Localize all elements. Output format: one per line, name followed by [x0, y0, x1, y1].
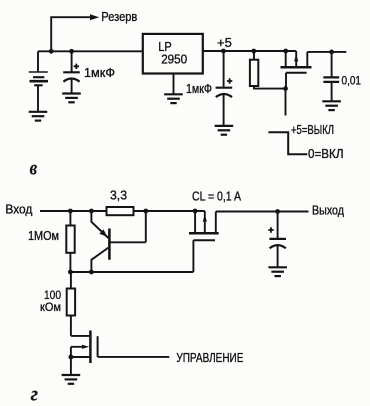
node: gate junction of Q1 [283, 86, 288, 91]
transistor Q4 gate line [97, 336, 99, 357]
battery G1 plate 3 long thick [30, 80, 49, 83]
node: Q1 source junction [283, 49, 288, 54]
capacitor C3 lead top [331, 52, 333, 78]
step waveform symbol [268, 132, 307, 154]
capacitor C2 top plate [216, 87, 233, 89]
node: Q3 source junction [193, 209, 198, 214]
capacitor C4 curved plate [270, 245, 286, 248]
node: Q2 collector junction [89, 270, 94, 275]
capacitor C1 curved plate [63, 79, 79, 82]
wire: bottom lower rail [70, 271, 193, 273]
transistor Q1 drain lead [306, 52, 308, 66]
node: 1МОм top [68, 209, 73, 214]
capacitor C1 lead top [71, 51, 73, 72]
capacitor C2 lead bottom [223, 94, 225, 125]
svg-text:Резерв: Резерв [101, 9, 137, 24]
node: capacitor C1 junction [69, 49, 74, 54]
node: output capacitor junction [275, 209, 280, 214]
transistor Q2 emitter arrow [99, 229, 107, 236]
transistor Q1 body lead [295, 51, 297, 66]
transistor Q1 source lead [285, 51, 287, 66]
svg-text:2950: 2950 [161, 53, 187, 67]
svg-text:0=ВКЛ: 0=ВКЛ [308, 147, 344, 161]
resistor R1 lead bottom [254, 86, 286, 89]
capacitor C3 plate 1 [323, 76, 339, 78]
capacitor C1 top plate [63, 71, 80, 73]
capacitor C4 lead top [277, 212, 279, 239]
svg-text:УПРАВЛЕНИЕ: УПРАВЛЕНИЕ [176, 350, 243, 365]
transistor Q3 channel bar [189, 232, 219, 235]
transistor Q4 drain lead [71, 335, 89, 337]
transistor Q3 body arrow [203, 214, 207, 221]
ground under C1 [62, 94, 81, 103]
wire: control stub from Q1 gate [285, 89, 287, 116]
svg-text:кОм: кОм [40, 300, 61, 314]
transistor Q4 body lead [71, 347, 83, 357]
regulator U1 ground lead [173, 74, 175, 95]
capacitor C1 lead bottom [71, 79, 73, 93]
ground under battery G1 [29, 112, 48, 121]
transistor Q1 gate line [286, 72, 307, 74]
svg-text:0,01: 0,01 [342, 74, 362, 88]
node: Q2 emitter junction [89, 209, 94, 214]
capacitor C4 plus sign [268, 227, 273, 232]
battery G1 lead top [37, 51, 39, 72]
transistor Q3 source lead [194, 211, 196, 232]
svg-text:в: в [30, 156, 38, 180]
transistor Q1 body arrow [294, 54, 298, 61]
svg-text:+5=ВЫКЛ: +5=ВЫКЛ [291, 123, 334, 137]
svg-text:1мкФ: 1мкФ [186, 82, 212, 96]
resistor R4 lead bottom [70, 316, 72, 336]
transistor Q2 collector lead [91, 248, 108, 272]
transistor Q3 gate lead [192, 240, 194, 272]
svg-text:CL = 0,1 A: CL = 0,1 A [192, 190, 242, 204]
resistor R3 lead bottom [69, 253, 71, 272]
node: lower rail left [68, 270, 73, 275]
wire: top main input rail [38, 50, 143, 52]
transistor Q3 body lead [204, 211, 206, 232]
svg-text:+5: +5 [217, 35, 232, 50]
transistor Q1 channel bar [281, 66, 312, 69]
wire: bottom output rail [216, 211, 309, 213]
resistor R4 100кОм lead top [70, 272, 72, 289]
regulator U1 LP2950 box [143, 34, 203, 74]
transistor Q4 source lead [71, 356, 89, 358]
wire: control line to gate of Q4 [98, 356, 170, 358]
svg-text:Вход: Вход [5, 202, 32, 217]
transistor Q1 gate lead [285, 73, 287, 89]
wire: riser to reserve arrow [51, 17, 90, 51]
resistor R1 lead top [253, 51, 255, 60]
node: capacitor C3 top [329, 50, 334, 55]
node: resistor R1 top [251, 49, 256, 54]
ground under Q4 [62, 375, 81, 384]
node +5 [221, 49, 226, 54]
svg-text:3,3: 3,3 [110, 189, 127, 203]
transistor Q4 channel bar [89, 331, 92, 364]
resistor R2 3,3 body [107, 207, 134, 215]
node: reserve tap junction [49, 49, 54, 54]
resistor R4 body [67, 289, 75, 316]
resistor R1 body [250, 60, 258, 86]
capacitor C2 lead top [223, 51, 225, 88]
resistor R3 body [66, 226, 74, 253]
battery G1 plate 1 long [29, 71, 48, 73]
svg-text:Выход: Выход [312, 202, 344, 217]
wire: Q4 source to ground [70, 357, 72, 375]
transistor Q3 drain lead [215, 212, 217, 233]
battery G1 plate 2 short [33, 76, 44, 78]
capacitor C2 plus sign [227, 78, 232, 83]
wire: rail after Q1 [307, 51, 346, 53]
battery G1 lead bottom [37, 85, 39, 111]
capacitor C2 curved plate [216, 94, 232, 97]
resistor R3 1МОм lead top [69, 211, 71, 226]
transistor Q3 gate line [193, 239, 215, 241]
transistor Q2 base bar [108, 229, 111, 260]
capacitor C3 lead bottom [331, 82, 333, 101]
capacitor C1 plus sign [74, 64, 79, 69]
transistor Q2 emitter lead [91, 211, 108, 238]
ground under C4 [268, 267, 287, 276]
svg-text:1МОм: 1МОм [28, 229, 59, 243]
battery G1 plate 4 short [34, 84, 42, 86]
wire: top output rail [203, 50, 296, 52]
wire: bottom main input rail [40, 210, 205, 212]
node: Q2 base junction [143, 209, 148, 214]
svg-text:г: г [31, 384, 38, 405]
capacitor C3 plate 2 [323, 81, 339, 83]
ground under C2 [215, 126, 234, 135]
ground under C3 [322, 101, 341, 110]
arrowhead: reserve arrow [90, 14, 99, 20]
capacitor C4 lead bottom [277, 245, 279, 267]
capacitor C4 top plate [269, 238, 286, 240]
transistor Q2 base lead [110, 211, 146, 242]
node: Q4 source junction [69, 355, 74, 360]
svg-text:1мкФ: 1мкФ [84, 66, 115, 80]
ground under U1 [164, 94, 183, 103]
transistor Q4 body arrow [82, 345, 89, 349]
